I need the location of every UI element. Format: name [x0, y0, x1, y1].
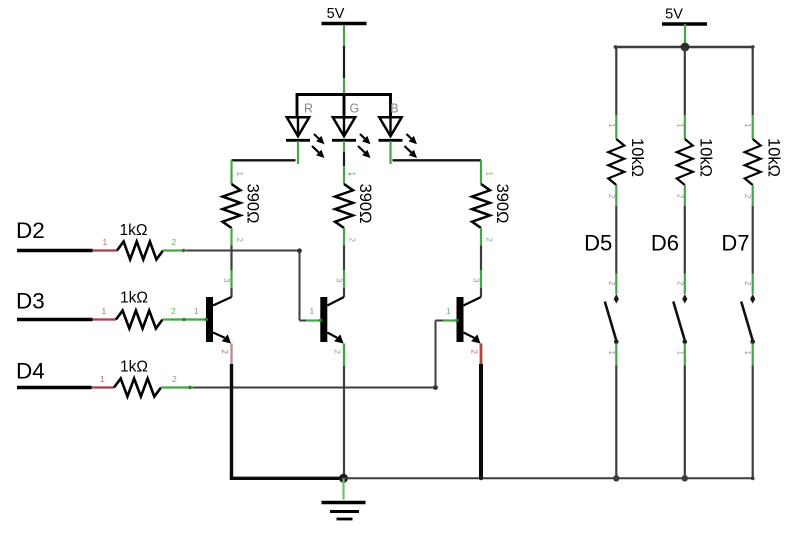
- wire rail to R8: [684, 47, 686, 115]
- power 5V right symbol: [662, 7, 707, 25]
- svg-text:2: 2: [607, 281, 616, 286]
- svg-text:2: 2: [171, 306, 176, 316]
- svg-text:10kΩ: 10kΩ: [764, 138, 782, 177]
- svg-text:B: B: [390, 102, 398, 116]
- resistor R5 pin 2 / wire to Q1 base: [163, 306, 209, 321]
- power 5V left symbol: [322, 6, 367, 24]
- svg-text:D4: D4: [16, 359, 45, 384]
- wire switch to bottom rail: [752, 366, 754, 479]
- wire R3 to transistor collector: [480, 246, 482, 271]
- transistor Q3 base pin 1: [443, 306, 459, 322]
- svg-text:1: 1: [194, 306, 199, 316]
- resistor R3 390&#937; pin 2: [481, 228, 494, 246]
- wire D3 red: [93, 306, 117, 320]
- wire R8 to switch: [684, 206, 686, 274]
- wire R1 to transistor collector: [230, 246, 232, 271]
- LED R: [286, 102, 325, 159]
- svg-text:D2: D2: [16, 218, 45, 243]
- resistor R7 10k&#937; pin 2: [607, 185, 617, 206]
- svg-text:5V: 5V: [327, 6, 345, 22]
- wire Q2 emitter to ground rail: [343, 366, 345, 478]
- node ground junction: [339, 474, 348, 483]
- switch S7: [605, 294, 619, 344]
- transistor collector pin 3: [335, 270, 345, 297]
- svg-text:2: 2: [348, 238, 357, 243]
- transistor Q2 base pin 1: [306, 306, 322, 322]
- svg-text:3: 3: [222, 278, 231, 283]
- switch pin 2: [743, 274, 753, 295]
- svg-text:1: 1: [235, 172, 244, 177]
- svg-text:1: 1: [743, 351, 752, 356]
- transistor Q3: [457, 297, 482, 344]
- resistor R2 390&#937; pin 2: [344, 228, 357, 246]
- LED R cathode pin: [297, 141, 299, 164]
- svg-text:1: 1: [607, 123, 616, 128]
- svg-text:G: G: [350, 102, 360, 116]
- svg-text:1: 1: [102, 306, 107, 316]
- switch pin 2: [607, 274, 617, 295]
- resistor R2 390&#937; pin 1: [344, 166, 357, 184]
- transistor Q3 emitter pin 2: [470, 344, 482, 365]
- transistor Q2: [320, 297, 344, 344]
- wire D4 to Q3 base: [193, 321, 443, 390]
- svg-text:1: 1: [310, 306, 315, 316]
- svg-text:D6: D6: [651, 231, 679, 256]
- resistor R5 1k&#937;: [116, 290, 163, 329]
- resistor R7 10k&#937;: [608, 138, 646, 185]
- wire D4 red: [92, 374, 115, 388]
- svg-text:R: R: [304, 102, 313, 116]
- svg-text:2: 2: [470, 350, 479, 355]
- svg-text:10kΩ: 10kΩ: [697, 138, 715, 177]
- LED G cathode pin: [344, 141, 351, 174]
- LED B: [379, 102, 418, 159]
- wire rail to R7: [615, 47, 617, 115]
- svg-text:1: 1: [446, 306, 451, 316]
- resistor R6 pin 2: [161, 374, 193, 389]
- resistor R3 390&#937;: [472, 184, 511, 228]
- ground: [322, 478, 366, 519]
- wire switch to bottom rail: [684, 366, 686, 479]
- transistor Q2 emitter pin 2: [333, 344, 345, 367]
- svg-text:1: 1: [675, 123, 684, 128]
- wire switch to bottom rail: [615, 366, 617, 479]
- svg-text:2: 2: [172, 374, 177, 384]
- svg-text:10kΩ: 10kΩ: [628, 138, 646, 177]
- svg-text:2: 2: [675, 194, 684, 199]
- svg-text:2: 2: [675, 281, 684, 286]
- wire LED R cathode to R1: [232, 159, 296, 161]
- wire top rail: [614, 45, 755, 49]
- resistor R1 390&#937; pin 1: [232, 160, 245, 184]
- svg-text:2: 2: [220, 350, 229, 355]
- transistor collector pin 3: [472, 270, 482, 297]
- svg-text:3: 3: [472, 278, 481, 283]
- transistor collector pin 3: [222, 270, 232, 297]
- wire R7 to switch: [615, 206, 617, 274]
- svg-text:5V: 5V: [665, 7, 683, 23]
- switch pin 1: [607, 344, 617, 366]
- svg-text:D5: D5: [584, 231, 612, 256]
- resistor R4 1k&#937;: [117, 222, 163, 260]
- switch pin 1: [675, 344, 685, 366]
- resistor R6 1k&#937;: [114, 359, 161, 397]
- svg-text:1: 1: [100, 374, 105, 384]
- svg-text:1kΩ: 1kΩ: [120, 290, 148, 307]
- LED B cathode pin: [389, 141, 391, 164]
- resistor R1 390&#937;: [223, 184, 262, 228]
- wire R2 to transistor collector: [343, 246, 345, 271]
- node D2 terminal stub: [17, 249, 93, 253]
- resistor R8 10k&#937; pin 1: [675, 115, 685, 139]
- svg-text:D3: D3: [16, 289, 45, 314]
- transistor Q1 emitter pin 2: [220, 344, 232, 365]
- svg-text:D7: D7: [721, 231, 749, 256]
- svg-text:2: 2: [743, 194, 752, 199]
- switch pin 2: [675, 274, 685, 295]
- svg-text:1: 1: [348, 172, 357, 177]
- resistor R1 390&#937; pin 2: [232, 228, 245, 246]
- svg-text:2: 2: [485, 238, 494, 243]
- svg-text:1: 1: [743, 123, 752, 128]
- svg-text:2: 2: [172, 237, 177, 247]
- svg-text:2: 2: [333, 350, 342, 355]
- resistor R9 10k&#937; pin 1: [743, 115, 753, 139]
- transistor Q1: [206, 297, 232, 344]
- svg-text:390Ω: 390Ω: [244, 184, 262, 224]
- resistor R8 10k&#937; pin 2: [675, 185, 685, 206]
- wire Q3 emitter to ground rail: [479, 364, 483, 478]
- wire rail to R9: [752, 47, 754, 115]
- wire D2 red: [93, 237, 118, 251]
- svg-text:2: 2: [235, 238, 244, 243]
- resistor R7 10k&#937; pin 1: [607, 115, 617, 139]
- switch S8: [673, 294, 687, 344]
- svg-text:3: 3: [335, 278, 344, 283]
- node 5V rail junction: [681, 43, 690, 52]
- node D3 terminal stub: [17, 318, 93, 322]
- svg-text:2: 2: [743, 281, 752, 286]
- resistor R2 390&#937;: [335, 184, 374, 228]
- LED G: [332, 102, 371, 159]
- wire D2 to Q2 base: [186, 248, 306, 320]
- wire LED B cathode to R3: [393, 159, 482, 161]
- switch S9: [741, 294, 755, 344]
- svg-text:1: 1: [607, 351, 616, 356]
- resistor R8 10k&#937;: [677, 138, 715, 185]
- svg-text:2: 2: [607, 194, 616, 199]
- svg-text:1kΩ: 1kΩ: [120, 359, 148, 376]
- switch pin 1: [743, 344, 753, 366]
- svg-text:1: 1: [675, 351, 684, 356]
- wire 5V to LED branch: [343, 25, 345, 95]
- svg-text:390Ω: 390Ω: [356, 184, 374, 224]
- svg-text:1: 1: [103, 237, 108, 247]
- svg-text:1: 1: [485, 172, 494, 177]
- resistor R3 390&#937; pin 1: [481, 160, 494, 184]
- wire bottom rail: [344, 475, 755, 481]
- node D4 terminal stub: [17, 386, 92, 390]
- wire Q1 emitter to ground rail: [230, 364, 344, 478]
- wire LED anode branch bar: [296, 93, 392, 116]
- resistor R9 10k&#937; pin 2: [743, 185, 753, 206]
- resistor R9 10k&#937;: [745, 138, 783, 185]
- svg-text:1kΩ: 1kΩ: [120, 222, 148, 239]
- wire R9 to switch: [752, 206, 754, 274]
- wire 5V right stub: [684, 24, 686, 47]
- resistor R4 pin 2: [163, 237, 186, 252]
- svg-text:390Ω: 390Ω: [493, 184, 511, 224]
